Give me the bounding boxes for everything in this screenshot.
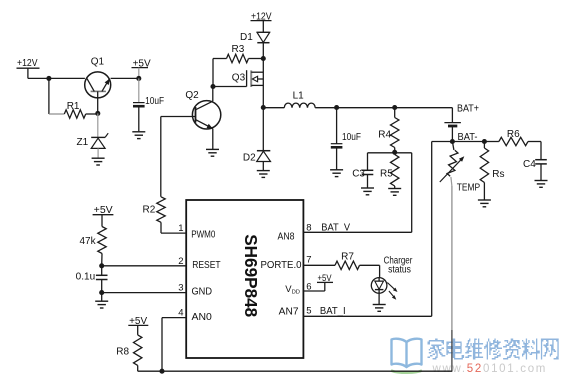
ground below D2: [257, 170, 270, 172]
node Q1 base / R1 / Z1: [95, 111, 100, 116]
svg-text:D1: D1: [240, 32, 253, 43]
svg-text:7: 7: [306, 254, 311, 265]
wire TEMP down to AN0 net (gray): [451, 177, 452, 186]
svg-text:GND: GND: [192, 287, 213, 298]
wire bottom AN0 net: [138, 370, 453, 372]
battery BT1: [444, 122, 461, 124]
wire R3 left down to gate node: [212, 59, 214, 87]
ground below 0.1u: [95, 300, 108, 302]
wire junction down to R1: [48, 78, 50, 114]
ground below C4: [535, 180, 548, 182]
svg-text:Rs: Rs: [492, 169, 504, 180]
svg-text:D2: D2: [243, 152, 256, 163]
wire BAT- left branch: [432, 141, 453, 143]
ground below R5: [388, 188, 401, 190]
LED arrows: [387, 283, 396, 291]
op-amp U1 SH69P848 body: [186, 200, 303, 358]
svg-text:Q1: Q1: [91, 57, 105, 68]
ground below C3: [361, 187, 374, 189]
svg-text:R2: R2: [143, 205, 156, 216]
svg-text:10uF: 10uF: [342, 132, 361, 143]
svg-text:0.1u: 0.1u: [76, 272, 96, 283]
watermark text jiadian weixiu ziliao wang: [428, 339, 559, 360]
wire gate node to Q3 gate: [213, 86, 247, 88]
wire Q1 emitter to +5V node: [111, 77, 139, 79]
svg-text:Q3: Q3: [232, 73, 246, 84]
node D1/R3/Q3 drain: [261, 56, 266, 61]
svg-text:5: 5: [306, 305, 311, 316]
wire Q2 base: [161, 116, 196, 118]
svg-text:PORTE.0: PORTE.0: [261, 260, 302, 271]
capacitor 10uF (output): [336, 108, 338, 144]
node R4 top: [392, 105, 397, 110]
wire BAT- branch down to BAT_I: [431, 142, 433, 317]
resistor R1: [49, 113, 64, 115]
node R4/R5/C3/BAT_V: [392, 150, 397, 155]
svg-text:4: 4: [178, 307, 183, 318]
svg-text:C4: C4: [523, 159, 536, 170]
svg-text:R1: R1: [67, 101, 80, 112]
node Q3 source / D2 / L1: [261, 105, 266, 110]
ground below 10uF: [132, 131, 145, 133]
svg-text:RESET: RESET: [192, 260, 220, 271]
wire BAT_V riser: [411, 153, 413, 233]
node +5V / 10uF junction: [136, 76, 141, 81]
watermark green underline: [391, 371, 422, 373]
svg-text:SH69P848: SH69P848: [241, 234, 261, 317]
ground below Z1: [92, 157, 105, 159]
LED D3 charger status: [371, 278, 387, 294]
svg-text:+12V: +12V: [17, 58, 38, 69]
svg-text:R7: R7: [341, 252, 354, 263]
svg-text:R6: R6: [507, 129, 520, 140]
svg-text:Z1: Z1: [77, 137, 89, 148]
wire node to BAT+ corner: [395, 107, 453, 109]
wire node to ground: [101, 293, 103, 301]
svg-text:BAT+: BAT+: [457, 104, 479, 115]
node BAT-/Rs/R6: [482, 139, 487, 144]
svg-text:AN7: AN7: [279, 307, 299, 318]
svg-text:10uF: 10uF: [145, 96, 164, 107]
ground below output 10uF: [330, 169, 343, 171]
capacitor 10uF (5V rail): [138, 78, 140, 102]
svg-text:47k: 47k: [80, 236, 97, 247]
svg-text:AN8: AN8: [278, 231, 295, 242]
watermark book icon: [392, 339, 422, 367]
wire C3 to node to BAT_V riser: [368, 152, 412, 154]
svg-text:L1: L1: [293, 90, 305, 101]
node 0.1u/GND pin: [99, 290, 104, 295]
wire D1 cathode to node: [262, 43, 264, 59]
wire AN0 riser: [161, 318, 163, 372]
ground below LED: [373, 304, 386, 306]
svg-text:+5V: +5V: [318, 273, 332, 283]
wire Q3 drain vertical: [262, 59, 264, 108]
wire +12V rail to Q1: [28, 77, 85, 79]
wire output node to R4 node: [337, 107, 395, 109]
ground below Q2 emitter: [206, 148, 219, 150]
svg-text:www.520101.com: www.520101.com: [432, 363, 548, 375]
node R3/Q3 gate/Q2 collector: [210, 84, 215, 89]
wire BAT+ down to battery: [451, 108, 453, 123]
svg-text:status: status: [388, 264, 411, 275]
svg-text:R8: R8: [116, 347, 129, 358]
node +12V/R1 junction: [46, 76, 51, 81]
wire BAT- to Rs/R6 node: [452, 141, 484, 143]
node AN0/bottom wire: [159, 369, 164, 374]
node 47k/0.1u/RESET: [99, 263, 104, 268]
ground below Rs: [478, 199, 491, 201]
svg-text:AN0: AN0: [192, 312, 213, 323]
svg-text:Q2: Q2: [185, 90, 199, 101]
svg-text:3: 3: [178, 282, 183, 293]
node BAT- left: [450, 139, 455, 144]
svg-text:TEMP: TEMP: [457, 183, 481, 194]
svg-text:BAT_I: BAT_I: [320, 306, 346, 317]
node L1 / 10uF output cap: [334, 105, 339, 110]
svg-text:PWM0: PWM0: [191, 230, 216, 241]
